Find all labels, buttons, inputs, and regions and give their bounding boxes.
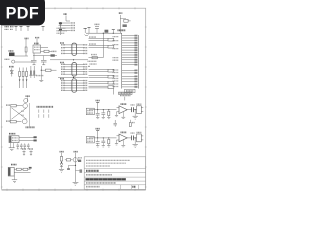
zener D1 [9,67,14,77]
wire [50,59,88,61]
vertical rail [102,33,104,57]
IC U5 regulator [33,43,41,53]
capacitor row [17,143,30,149]
microphone MK7 [86,108,94,115]
connector P1 [12,60,15,63]
wire [19,139,34,141]
title block row text [86,174,112,176]
frame tick marks [1,7,147,190]
wire [127,137,131,139]
wire cross [10,107,26,120]
resistor Rc8 [107,137,110,147]
title block divider [84,176,146,178]
wire [41,47,49,49]
resistor R21 [6,104,23,107]
title block divider [84,184,146,186]
header J3 rows [89,69,114,88]
wire [25,52,27,56]
crystal Y1 [119,13,131,33]
PDF badge [0,0,45,25]
ground [42,64,45,66]
junction [103,33,104,34]
resistor R14 [30,66,37,78]
resistor network RN2 [60,63,88,77]
ground [121,112,125,119]
capacitor Cd7 [131,105,135,112]
wire [133,109,136,111]
inter-stage resistor [129,120,135,127]
ground [12,176,17,183]
power label stage 7 [96,101,101,110]
capacitor C1 [51,51,57,56]
labels [21,111,24,115]
capacitor C3 [41,60,47,64]
capacitor Ca7 [96,109,100,119]
power flag VCC6 [42,26,45,31]
wire [15,61,33,63]
ground [9,143,15,151]
label [5,58,10,60]
microphone MK8 [86,136,94,143]
transistor Q1 [24,99,28,103]
power flag VCC1 [5,27,10,30]
ferrite bead FB1 [105,30,109,33]
power flag [84,28,87,33]
title block divider [84,180,146,182]
capacitor Ca8 [96,137,100,147]
label block [57,28,68,33]
label text [26,126,36,128]
label [36,75,44,77]
wire [43,56,45,61]
power flag VCC2 [10,27,14,30]
resistor R2 [41,50,53,52]
capacitor Cd8 [131,133,135,140]
resistor network RN1 [60,43,88,55]
small part jumper JP2 [29,149,33,156]
capacitor Cb7 [101,109,105,119]
wire [36,39,38,46]
junction [113,33,114,34]
speaker jack J7 [137,104,144,113]
pin group rows [122,70,138,88]
title block bottom row [86,185,139,190]
wire [19,136,34,138]
resistor bank R11 R12 R13 [19,68,28,89]
title block logo row [86,170,99,172]
inter-stage cap [114,120,117,127]
resistor R1 [25,38,29,52]
wire [40,66,42,70]
wire [33,55,57,57]
wire [127,109,131,111]
connector J4 [8,165,16,176]
transistor Q3 [22,119,27,124]
ground [39,80,43,81]
IC U3 rails [118,30,139,88]
wire [89,109,117,111]
wire [112,89,114,95]
wire [40,70,42,80]
power label stage 8 [96,129,101,138]
power flag VCC3 [15,26,18,31]
small part jumper JP1 [22,149,26,156]
wire [29,103,31,127]
speaker jack J8 [137,132,144,141]
title block divider [84,168,146,170]
labels [88,61,97,67]
battery BT1 [9,51,15,56]
resistor labels R31 R32 R33 [37,107,54,118]
title block notice text [86,160,130,166]
title block row text [86,182,116,184]
title block divider [84,172,146,174]
resistor network RN3 [60,79,88,93]
module U6 [9,134,19,143]
op-amp U8 [115,132,127,145]
wire [133,137,136,139]
title block frame [84,157,146,190]
svg-text:PDF: PDF [6,5,40,23]
resistor R41 [14,168,30,170]
LED chain D2 [59,152,64,173]
ground [133,137,138,147]
connector stub [34,136,37,141]
wire [58,76,88,78]
power flag VCC4 [20,26,23,31]
resistor R5 [89,55,104,59]
connector stub [29,167,32,169]
wire VCC bus [86,32,122,34]
wire [60,32,62,36]
pin rows dense [122,35,138,66]
op-amp U7 [115,104,127,117]
wire [25,39,27,48]
power tap [112,30,115,34]
connector J1 [59,14,76,31]
ground [133,109,138,119]
capacitor C2 [31,60,37,64]
resistor Rc7 [107,109,110,119]
curve mark [85,35,89,36]
capacitor C4 [95,24,100,33]
power symbol [88,28,91,34]
pin labels left [113,37,119,87]
schematic frame border [2,8,146,189]
capacitor Cb8 [101,137,105,147]
ground [121,140,125,147]
header J2 rows [89,37,114,48]
wire [14,171,30,173]
label box OSC [119,92,133,100]
label box [125,89,136,92]
power label +V [26,96,31,102]
ground [33,64,36,66]
wire [89,137,117,139]
wire [15,55,29,57]
resistor R15 [41,69,56,71]
title block title row [86,178,127,180]
transistor Q2 [23,104,28,109]
label [35,37,40,39]
resistor R22 [6,120,22,123]
transistor Q4 chain [65,152,82,186]
wire [33,53,35,60]
power flag VCC5 [27,26,30,31]
frame bottom outer line [2,190,146,192]
